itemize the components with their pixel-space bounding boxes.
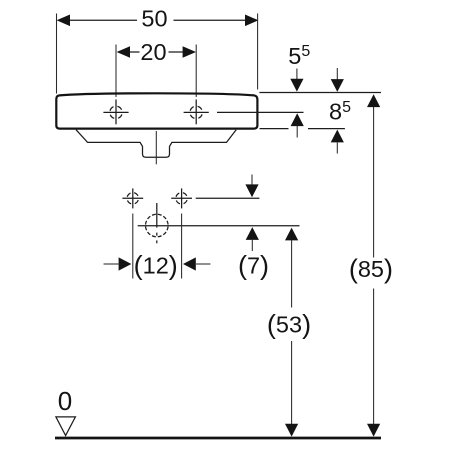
dimension 8.5: lower arrow pointing up xyxy=(331,130,344,154)
svg-text:(7): (7) xyxy=(238,251,269,281)
extension line at plan tap hole level xyxy=(196,197,260,199)
dimension 5.5: lower arrow pointing up xyxy=(291,113,304,137)
dimension (7): lower arrow pointing up xyxy=(246,227,259,251)
washbasin lower bowl profile xyxy=(76,130,236,158)
extension line at tap hole level xyxy=(217,111,304,113)
dimension 50: right extension line xyxy=(257,14,259,90)
plan view drain: vertical centre line xyxy=(156,203,158,243)
dimension (12): right arrow pointing left xyxy=(183,257,211,270)
plan view tap hole left: dashed circle xyxy=(127,193,138,204)
extension line at basin bottom level (two segments) xyxy=(260,128,345,130)
svg-text:(12): (12) xyxy=(134,251,178,281)
dimension 20: dimension line with outward arrows xyxy=(117,46,196,58)
dimension (7): upper arrow pointing down xyxy=(245,175,258,198)
dimension 50: left extension line xyxy=(56,14,58,94)
plan view tap hole right: dashed circle xyxy=(176,193,187,204)
datum zero triangle xyxy=(56,417,76,436)
dimension (85): vertical line with end arrows xyxy=(367,94,380,436)
svg-text:50: 50 xyxy=(141,6,167,32)
tap hole left: dashed circle xyxy=(110,106,122,118)
dimension (12): right extension line xyxy=(181,214,183,279)
dimension (53): vertical line with end arrows xyxy=(285,228,298,437)
dimension 50: dimension line with outward arrows xyxy=(57,15,259,27)
extension line at plan drain level xyxy=(138,225,300,227)
tap hole right: dashed circle xyxy=(190,106,202,118)
floor line xyxy=(55,437,381,440)
plan view tap hole left: crosshair xyxy=(122,188,143,208)
svg-text:20: 20 xyxy=(140,39,166,65)
drain centre line (front view) xyxy=(155,131,157,164)
plan view drain: dashed circle xyxy=(146,214,169,237)
svg-text:0: 0 xyxy=(58,386,72,416)
dimension (12): left arrow pointing right xyxy=(104,257,132,270)
tap hole right: crosshair xyxy=(184,100,209,125)
dimension (12): left extension line xyxy=(132,214,134,279)
extension line at rim top level xyxy=(259,92,381,94)
svg-text:(85): (85) xyxy=(349,254,393,284)
dimension 20: right extension line xyxy=(195,45,197,98)
tap hole left: crosshair xyxy=(103,100,128,125)
dimension 5.5: upper arrow pointing down xyxy=(290,69,303,92)
plan view tap hole right: crosshair xyxy=(171,188,192,208)
dimension 20: left extension line xyxy=(115,45,117,98)
dimension 8.5: upper arrow pointing down xyxy=(331,68,344,92)
svg-text:(53): (53) xyxy=(267,310,311,340)
washbasin body outline (front view) xyxy=(56,93,257,128)
